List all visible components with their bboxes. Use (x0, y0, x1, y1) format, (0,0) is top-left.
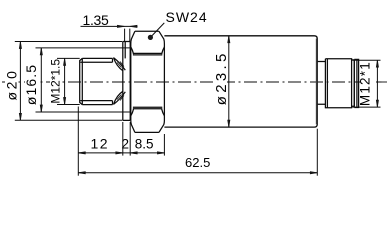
label SW24 with leader (150, 23, 164, 38)
dimension 62.5 (78, 172, 317, 174)
svg-text:ø20: ø20 (3, 69, 19, 101)
svg-text:M12*1: M12*1 (358, 61, 373, 106)
svg-text:1.35: 1.35 (82, 12, 109, 28)
svg-text:12: 12 (91, 136, 110, 152)
nut chamfer arcs (131, 47, 165, 116)
connector barrel (325, 59, 351, 108)
main body o23.5 (164, 36, 317, 127)
thread root lines (80, 58, 112, 104)
nut face edge top (double line) (133, 53, 162, 55)
barrel groove line (326, 59, 328, 108)
dimension 1.35 (81, 26, 138, 41)
svg-text:M12*1.5: M12*1.5 (48, 59, 62, 104)
svg-text:ø23.5: ø23.5 (213, 50, 230, 105)
thread runout hatch bottom (117, 95, 124, 101)
extension lines bottom (78, 107, 317, 176)
dimension M12x1 (right) (352, 60, 380, 107)
nut face edge bottom (double line) (133, 107, 162, 109)
dimension o23.5 (228, 36, 230, 127)
connector thread ring M12x1 (354, 59, 358, 107)
hex nut SW24 outline (131, 31, 165, 132)
dimension o16.5 (36, 48, 130, 112)
svg-text:8.5: 8.5 (135, 137, 154, 152)
centerline (2, 81, 387, 83)
thread runout crescent top (114, 58, 126, 71)
dimension M12x1.5 (57, 58, 80, 104)
svg-text:62.5: 62.5 (185, 155, 210, 170)
svg-text:ø16.5: ø16.5 (23, 64, 39, 105)
port thread M12x1.5 stub outline (80, 58, 113, 104)
svg-text:SW24: SW24 (166, 9, 208, 25)
neck groove line (124, 42, 126, 59)
thread chamfer line (81, 58, 83, 104)
thread runout hatch top (117, 62, 124, 68)
dimension o20 (15, 42, 123, 121)
connector neck (317, 62, 325, 105)
body right edge (weld seam) (316, 39, 318, 125)
dimension 12 / 2 / 8.5 line (78, 152, 165, 154)
connector mid ring (352, 60, 355, 106)
washer (collar) o20 (123, 42, 130, 121)
thread runout crescent bottom (114, 91, 126, 104)
svg-text:2: 2 (121, 137, 129, 152)
